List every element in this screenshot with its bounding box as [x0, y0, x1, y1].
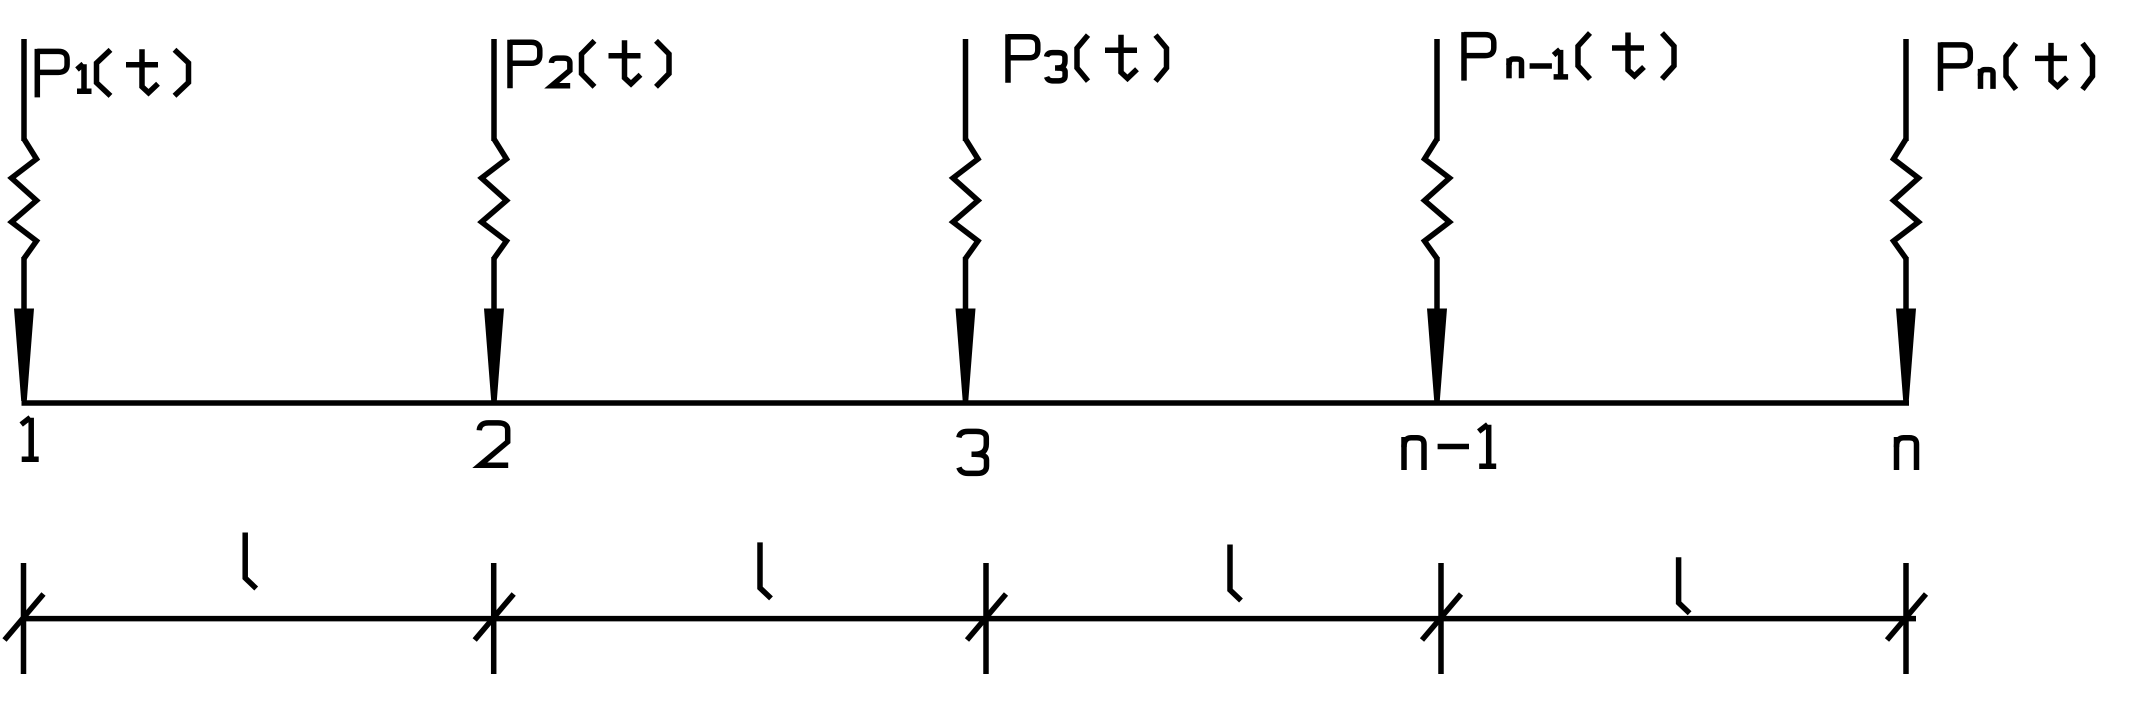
wire: upper stem of load P3: [963, 39, 969, 141]
wire: lower stem of load P1: [21, 257, 27, 312]
dimension label l (segment 1): [245, 533, 256, 589]
dimension tick 5 (extension line + slash): [1903, 563, 1909, 674]
wire: upper stem of load P2: [491, 39, 497, 141]
node label 1: [21, 418, 39, 460]
resistor (spring symbol) of load P1: [12, 139, 37, 259]
arrowhead of load P1 (force arrow onto beam): [14, 309, 34, 402]
dimension line (overall, bottom): [21, 616, 1916, 622]
dimension tick 3 (extension line + slash): [983, 563, 989, 674]
dimension label l (segment 2): [760, 542, 771, 598]
wire: lower stem of load P3: [963, 257, 969, 312]
dimension tick 4 (extension line + slash): [1438, 563, 1444, 674]
label Pn-1(t): [1461, 32, 1467, 81]
label P3(t): [1005, 34, 1011, 83]
wire: lower stem of load P2: [491, 257, 497, 312]
label P2(t): [507, 40, 513, 89]
wire: lower stem of load Pn: [1903, 257, 1909, 312]
resistor (spring symbol) of load Pn-1: [1425, 139, 1450, 259]
arrowhead of load P2 (force arrow onto beam): [484, 309, 504, 402]
dimension label l (segment 3): [1230, 545, 1241, 601]
dimension label l (segment 4): [1679, 557, 1690, 613]
arrowhead of load P3 (force arrow onto beam): [956, 309, 976, 402]
resistor (spring symbol) of load P3: [953, 139, 978, 259]
dimension tick 1 (extension line + slash): [21, 563, 27, 674]
node label 3: [959, 431, 986, 454]
node label n-1: [1401, 437, 1407, 470]
wire: upper stem of load Pn-1: [1434, 39, 1440, 141]
wire: upper stem of load P1: [21, 39, 27, 141]
label P1(t): [35, 49, 41, 98]
node label 2: [479, 423, 508, 465]
resistor (spring symbol) of load P2: [482, 139, 507, 259]
arrowhead of load Pn (force arrow onto beam): [1896, 309, 1916, 402]
beam (horizontal member through nodes 1..n): [22, 400, 1910, 406]
label Pn(t): [1938, 42, 1944, 91]
arrowhead of load Pn-1 (force arrow onto beam): [1427, 309, 1447, 402]
resistor (spring symbol) of load Pn: [1894, 139, 1919, 259]
wire: upper stem of load Pn: [1903, 39, 1909, 141]
dimension tick 2 (extension line + slash): [491, 563, 497, 674]
wire: lower stem of load Pn-1: [1434, 257, 1440, 312]
node label n: [1894, 437, 1900, 470]
